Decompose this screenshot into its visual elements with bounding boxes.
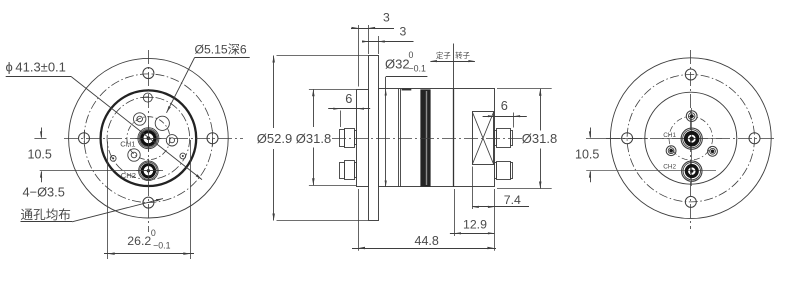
connector J4 side view right bottom <box>495 162 513 180</box>
left view horizontal centerline <box>64 138 243 140</box>
right view horizontal centerline <box>606 138 774 140</box>
svg-text:CH2: CH2 <box>663 164 676 171</box>
right view inner crosshair horizontal CH1 <box>662 138 722 140</box>
rear screw lower-right <box>708 146 718 156</box>
svg-text:44.8: 44.8 <box>415 234 439 248</box>
dimension Ø52.9 flange diameter <box>277 55 369 57</box>
svg-text:定子: 定子 <box>436 51 451 60</box>
svg-text:3: 3 <box>400 24 407 38</box>
dimension 12.9 rotor length <box>454 189 456 236</box>
body section line 1 <box>398 89 400 187</box>
right view vertical centerline <box>690 50 692 229</box>
svg-text:Ø31.8: Ø31.8 <box>296 131 331 146</box>
svg-text:Ø32: Ø32 <box>385 57 410 72</box>
svg-text:ϕ 41.3±0.1: ϕ 41.3±0.1 <box>6 60 66 75</box>
dimension 44.8 overall length <box>358 189 360 251</box>
svg-text:0: 0 <box>409 50 414 60</box>
svg-text:Ø5.15深6: Ø5.15深6 <box>195 43 247 57</box>
dimension 3 flange thickness <box>378 36 380 54</box>
svg-text:7.4: 7.4 <box>504 193 521 207</box>
svg-text:CH1: CH1 <box>663 132 676 139</box>
connector J3 side view right top <box>495 129 513 148</box>
small screw left on Ø26.2 <box>110 156 116 162</box>
svg-text:3: 3 <box>383 11 390 25</box>
svg-text:10.5: 10.5 <box>575 148 599 162</box>
svg-text:0: 0 <box>151 228 156 238</box>
left view flange outer circle Ø52.9 <box>69 58 229 218</box>
body top edge accent <box>402 89 412 91</box>
svg-text:Ø52.9: Ø52.9 <box>257 131 292 146</box>
svg-text:Ø31.8: Ø31.8 <box>522 131 557 146</box>
left view bolt hole top 4-Ø3.5 <box>143 68 154 79</box>
svg-text:CH2: CH2 <box>121 171 136 180</box>
connector J2 side view left bottom <box>340 161 357 180</box>
svg-text:−0.1: −0.1 <box>153 240 170 250</box>
svg-text:通孔均布: 通孔均布 <box>21 208 71 222</box>
right view outer circle <box>610 58 771 219</box>
connector CH2 rear view <box>682 161 702 181</box>
dimension 3 rear plate thickness <box>358 25 360 87</box>
svg-text:6: 6 <box>345 91 352 106</box>
side view horizontal centerline <box>332 138 523 140</box>
satellite hole lower-left <box>128 149 140 161</box>
left view vertical centerline <box>148 50 150 232</box>
body groove dark band <box>421 90 431 187</box>
connector CH1 front (center) <box>138 128 159 149</box>
right view bolt hole bottom <box>685 196 696 207</box>
right view bolt hole top <box>685 69 696 80</box>
rear screw lower-left <box>666 146 676 156</box>
dimension 26.2 0/-0.1 <box>107 142 109 260</box>
right view bolt hole right <box>749 133 760 144</box>
side view stator body Ø32 <box>379 89 495 187</box>
satellite hole upper-right Ø5.15 depth 6 <box>155 116 169 130</box>
right view body circle <box>645 92 737 184</box>
right view satellite circle <box>669 116 713 160</box>
connector J1 side view left top <box>340 129 357 148</box>
rotor end cap with cross mark <box>473 112 494 165</box>
svg-text:6: 6 <box>501 98 508 113</box>
svg-text:CH1: CH1 <box>120 139 135 148</box>
right view bolt hole left <box>622 133 633 144</box>
left view bolt circle Ø41.3 centerline circle <box>84 74 213 203</box>
left view body circle (thick) <box>101 90 197 186</box>
dimension Ø31.8 right body diameter <box>497 88 552 90</box>
connector CH2 front <box>139 161 159 181</box>
right view bolt circle <box>627 75 754 202</box>
side view rear plate <box>357 90 369 187</box>
stator/rotor split line on body <box>453 89 455 187</box>
svg-text:12.9: 12.9 <box>463 218 487 232</box>
satellite hole upper-left <box>134 113 146 125</box>
right view inner crosshair vertical <box>691 108 693 186</box>
satellite hole right <box>166 135 177 146</box>
left view connector satellite circle <box>127 117 170 160</box>
connector CH1 rear view <box>681 128 702 149</box>
side view mounting flange <box>369 56 379 221</box>
svg-text:转子: 转子 <box>455 51 470 60</box>
left view bolt hole bottom <box>143 197 154 208</box>
small screw top on Ø26.2 <box>143 93 152 102</box>
svg-text:4−Ø3.5: 4−Ø3.5 <box>23 185 65 200</box>
left view bolt hole right <box>207 133 218 144</box>
left view bolt hole left <box>79 133 90 144</box>
svg-text:26.2: 26.2 <box>127 234 151 248</box>
right view crosshair horizontal CH2 / 10.5 extension <box>586 170 716 172</box>
svg-text:−0.1: −0.1 <box>409 64 426 74</box>
small screw right on Ø26.2 <box>180 153 186 159</box>
svg-text:10.5: 10.5 <box>28 148 52 162</box>
dimension Ø31.8 left body diameter <box>309 89 356 91</box>
left view inner screw bolt circle Ø26.2 <box>107 97 190 180</box>
dimension 7.4 rotor cap width <box>472 167 474 210</box>
rear screw top <box>686 111 697 122</box>
